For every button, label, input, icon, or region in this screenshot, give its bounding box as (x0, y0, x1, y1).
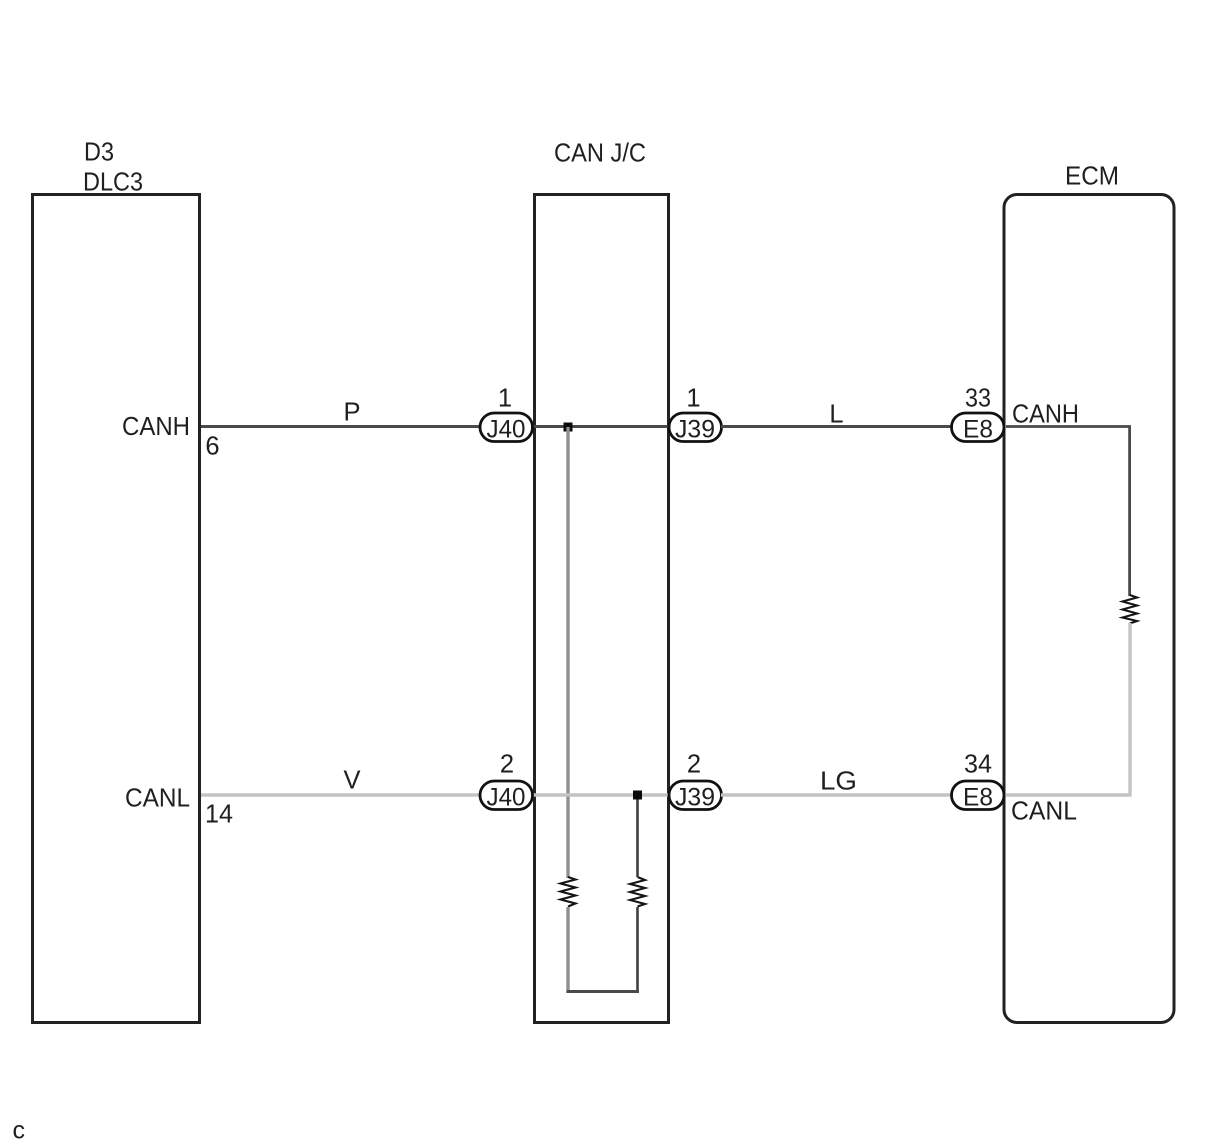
svg-text:CANH: CANH (122, 413, 190, 441)
component ECM box (1004, 195, 1174, 1023)
wire CANH DLC3 to J40 (P, dark) (201, 425, 479, 428)
wire R2 bottom up (dark) (636, 907, 639, 990)
wire CANL DLC3 to J40 (V, light gray) (201, 793, 479, 796)
junction-connector CAN J/C box (535, 195, 669, 1023)
resistor R2 (CAN J/C terminating) (630, 877, 645, 907)
wire R3 bottom to CANL (light gray) (1006, 623, 1130, 795)
svg-text:1: 1 (498, 385, 512, 413)
junction node CANL (dot) (633, 791, 642, 800)
svg-text:c: c (13, 1117, 26, 1144)
connector D3 DLC3 box (33, 195, 200, 1023)
svg-text:33: 33 (965, 385, 991, 413)
wire CANL J39 to E8 (LG, light gray) (721, 793, 951, 796)
connector oval E8 (CANL) (952, 781, 1005, 812)
resistor R1 (CAN J/C terminating) (561, 877, 576, 907)
wire CANL J40 to J39 inside CAN J/C (light gray) (533, 793, 668, 796)
svg-text:CANH: CANH (1012, 401, 1079, 429)
svg-text:D3: D3 (84, 139, 114, 167)
svg-text:P: P (343, 399, 360, 427)
connector oval J39 (CANL) (669, 781, 722, 812)
svg-text:CAN J/C: CAN J/C (554, 140, 646, 168)
junction node CANH (dot) (564, 423, 573, 432)
svg-text:6: 6 (205, 433, 219, 461)
svg-text:2: 2 (500, 751, 514, 779)
svg-text:1: 1 (686, 385, 700, 413)
connector oval J40 (CANH) (480, 413, 533, 444)
wire R1 bottom down (gray) (566, 907, 569, 993)
svg-text:ECM: ECM (1065, 163, 1119, 191)
connector oval E8 (CANH) (952, 413, 1005, 444)
svg-text:DLC3: DLC3 (83, 169, 143, 197)
svg-text:CANL: CANL (125, 785, 190, 813)
svg-text:34: 34 (964, 751, 992, 779)
connector oval J39 (CANH) (669, 413, 722, 444)
svg-text:2: 2 (687, 751, 701, 779)
svg-text:LG: LG (820, 768, 857, 796)
svg-text:E8: E8 (963, 416, 993, 444)
wire CANH J39 to E8 (L, dark) (721, 425, 951, 428)
connector oval J40 (CANL) (480, 781, 533, 812)
wire CANH J40 to J39 inside CAN J/C (dark) (533, 425, 668, 428)
svg-text:J40: J40 (487, 784, 526, 812)
svg-text:J40: J40 (487, 416, 526, 444)
resistor R3 (ECM terminating) (1123, 595, 1138, 624)
svg-text:L: L (829, 401, 843, 429)
svg-text:V: V (343, 767, 360, 795)
wire bottom connecting R1 to R2 (dark) (567, 990, 640, 993)
wire R2 top to CANL junction (dark) (636, 795, 639, 877)
svg-text:J39: J39 (675, 784, 715, 812)
svg-text:14: 14 (205, 801, 233, 829)
svg-text:E8: E8 (963, 784, 993, 812)
wire CANH inside ECM to corner (dark) (1006, 427, 1130, 597)
svg-text:CANL: CANL (1011, 798, 1077, 826)
svg-text:J39: J39 (675, 416, 715, 444)
wire CANH junction down to resistor (gray) (566, 427, 569, 878)
